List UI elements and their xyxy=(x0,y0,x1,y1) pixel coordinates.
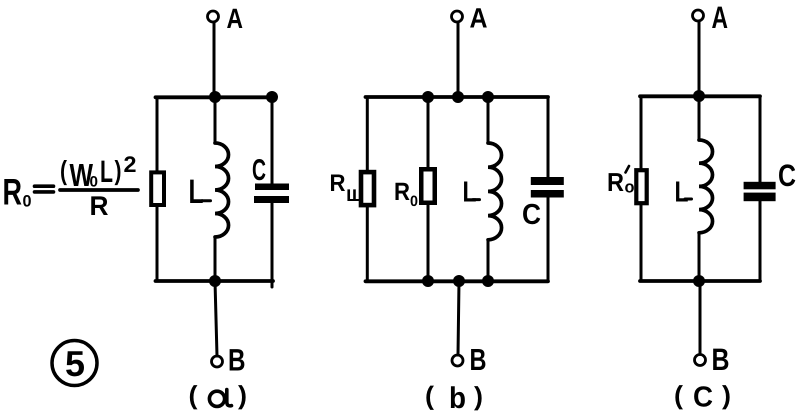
svg-text:A: A xyxy=(712,0,729,35)
svg-text:R: R xyxy=(3,172,23,213)
svg-text:2: 2 xyxy=(124,152,137,177)
svg-text:(: ( xyxy=(425,381,434,411)
svg-text:C: C xyxy=(252,154,266,187)
svg-text:5: 5 xyxy=(65,343,85,384)
svg-text:ш: ш xyxy=(346,181,363,206)
svg-text:(: ( xyxy=(189,380,198,410)
svg-text:A: A xyxy=(227,3,244,34)
svg-text:C: C xyxy=(778,158,796,193)
svg-text:A: A xyxy=(470,3,488,34)
svg-text:o: o xyxy=(625,178,635,197)
svg-text:0: 0 xyxy=(410,193,418,210)
svg-text:R: R xyxy=(90,191,109,221)
svg-text:B: B xyxy=(470,343,487,377)
svg-text:R: R xyxy=(394,178,410,206)
svg-text:L: L xyxy=(463,177,477,209)
svg-text:): ) xyxy=(238,380,247,410)
svg-text:B: B xyxy=(712,342,730,377)
svg-text:C: C xyxy=(693,382,713,414)
svg-text:0: 0 xyxy=(23,193,32,211)
svg-text:L: L xyxy=(189,173,204,211)
svg-text:b: b xyxy=(449,382,466,415)
svg-text:(: ( xyxy=(674,380,683,410)
svg-text:R: R xyxy=(607,167,624,197)
svg-text:R: R xyxy=(330,170,346,197)
svg-text:L: L xyxy=(675,177,689,209)
svg-text:): ) xyxy=(722,380,731,410)
svg-text:): ) xyxy=(474,381,483,411)
svg-text:B: B xyxy=(228,343,246,378)
svg-text:C: C xyxy=(522,199,541,231)
svg-text:(: ( xyxy=(60,156,67,186)
svg-text:): ) xyxy=(115,156,122,186)
svg-text:L: L xyxy=(100,154,113,189)
svg-text:0: 0 xyxy=(90,174,99,191)
